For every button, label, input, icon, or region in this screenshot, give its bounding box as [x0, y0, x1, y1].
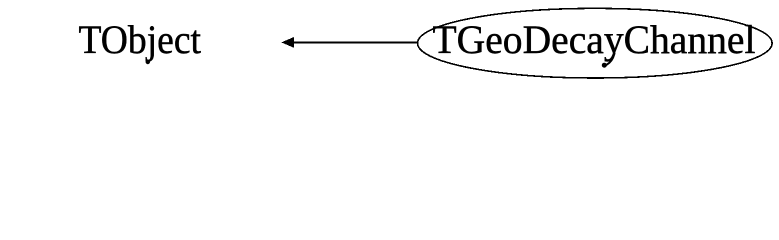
svg-text:TGeoDecayChannel: TGeoDecayChannel: [433, 17, 756, 62]
arrowhead pointing to TObject: [281, 37, 294, 48]
wire inheritance arrow shaft: [293, 42, 419, 44]
ellipse TGeoDecayChannel: [418, 8, 773, 78]
y descender tail of TGeoDecayChannel label: [607, 54, 615, 65]
j descender ball of TObject label: [146, 60, 150, 64]
svg-text:TObject: TObject: [79, 17, 202, 62]
